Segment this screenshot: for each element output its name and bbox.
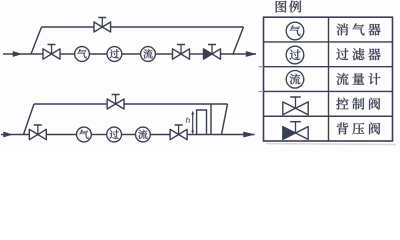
svg-text:h: h (186, 115, 191, 125)
